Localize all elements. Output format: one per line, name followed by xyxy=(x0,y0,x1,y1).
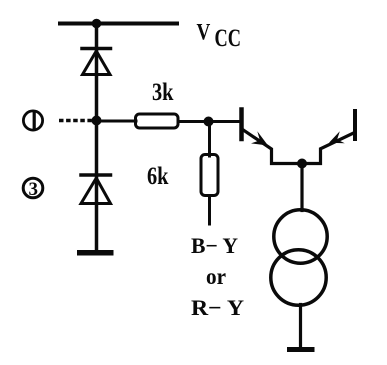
node: top rail / diode rail junction xyxy=(92,19,102,29)
diode D1 triangle xyxy=(83,51,111,75)
transistor Q1 base bar xyxy=(239,110,244,140)
svg-text:3: 3 xyxy=(29,179,39,200)
svg-text:CC: CC xyxy=(215,25,242,52)
svg-text:R− Y: R− Y xyxy=(191,295,244,320)
diode D1 cathode bar xyxy=(82,47,111,51)
pin 3 (circled) xyxy=(23,178,43,200)
svg-text:3k: 3k xyxy=(152,79,174,106)
resistor R2 6k xyxy=(201,155,218,196)
label Vcc xyxy=(197,20,242,53)
svg-text:6k: 6k xyxy=(147,163,169,190)
current source I1 (top circle) xyxy=(274,210,327,263)
svg-text:or: or xyxy=(206,264,226,289)
transistor Q1 emitter wire xyxy=(243,130,303,164)
wire: emitter node to current source xyxy=(300,164,303,211)
ground (left rail) xyxy=(77,250,114,256)
wire: 6k output stub xyxy=(208,196,211,225)
current source I1 (bottom circle) xyxy=(271,250,326,305)
diode D2 cathode bar xyxy=(81,173,111,177)
ground (current source) xyxy=(287,347,315,352)
resistor R1 3k xyxy=(136,114,179,128)
svg-text:V: V xyxy=(197,20,211,45)
node A: pin1 / resistor junction xyxy=(92,116,102,126)
wire: left vertical rail xyxy=(95,24,99,251)
wire: resistor 3k to transistor base xyxy=(178,120,241,123)
wire: node B down to resistor 6k xyxy=(208,122,211,157)
transistor Q2 emitter arrow xyxy=(329,131,345,143)
node B: base / 6k junction xyxy=(204,117,214,127)
wire: input from pin 1 (broken/dotted) xyxy=(59,119,92,123)
node C: common emitter junction xyxy=(297,159,307,169)
transistor Q1 emitter arrow xyxy=(251,131,268,145)
svg-text:B− Y: B− Y xyxy=(191,233,238,258)
wire: node A to resistor 3k xyxy=(97,120,137,123)
transistor Q2 emitter wire xyxy=(302,133,354,164)
transistor Q2 base bar xyxy=(353,111,357,139)
wire: current source to ground xyxy=(299,305,302,349)
pin 1 (circled) xyxy=(23,111,42,130)
diode D2 triangle xyxy=(81,178,111,204)
wire Vcc top rail xyxy=(60,22,177,26)
